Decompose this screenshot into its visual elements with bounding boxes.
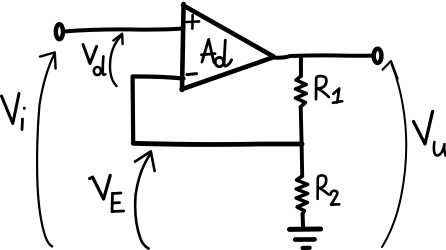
resistor R1 — [296, 76, 307, 107]
wire: output node down to R1 (junction) — [299, 58, 303, 77]
value label Ad — [202, 39, 232, 66]
input terminal (node Vi) — [56, 24, 63, 39]
label Vi — [2, 94, 26, 130]
arrow for Vd — [110, 34, 123, 86]
label R2 — [318, 175, 340, 205]
resistor R2 — [296, 176, 307, 214]
pin + (non-inverting input) — [187, 15, 200, 28]
wire: R1 bottom through feedback junction to R2 top — [301, 107, 303, 176]
label R1 — [316, 76, 342, 103]
wire: feedback bottom horizontal to node between R1 and R2 — [133, 143, 302, 144]
wire: input terminal to op-amp + input — [64, 29, 183, 32]
wire: op-amp output to output terminal — [272, 55, 372, 57]
arrow for VE — [135, 151, 155, 248]
label VE — [90, 175, 124, 211]
op-amp U1 (Ad) triangle — [182, 4, 274, 90]
arrow for Vi — [37, 52, 56, 246]
wire: R2 bottom to ground — [301, 214, 305, 226]
output terminal (node Vu) — [374, 49, 382, 63]
ground — [290, 229, 321, 248]
arrow for Vu — [382, 61, 406, 247]
wire: feedback vertical segment — [131, 77, 136, 144]
pin - (inverting input) — [187, 74, 197, 75]
label Vd — [83, 45, 105, 76]
wire: op-amp inverting input to feedback corner — [133, 76, 184, 78]
label Vu — [414, 111, 446, 155]
